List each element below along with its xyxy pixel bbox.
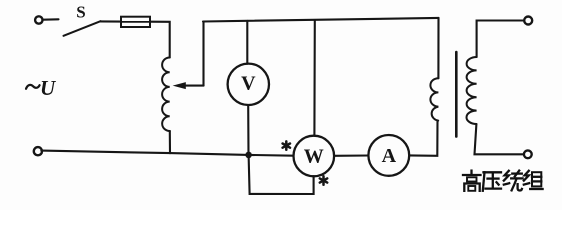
polarity mark * (wattmeter voltage side): [320, 176, 327, 184]
wire rail to wattmeter voltage terminal (top): [313, 20, 315, 136]
wire wattmeter voltage loop (junction to W bottom): [249, 155, 314, 194]
svg-text:V: V: [241, 72, 256, 94]
polarity mark * (wattmeter line side): [283, 141, 290, 149]
switch S (open blade): [64, 21, 101, 36]
wire autotransformer bottom to bottom rail: [169, 131, 171, 153]
wiper arrow of autotransformer: [173, 22, 204, 90]
wire secondary bottom to HV terminal: [475, 124, 524, 154]
svg-text:A: A: [382, 145, 397, 167]
svg-text:U: U: [40, 76, 57, 100]
terminal T4 (HV output bottom): [524, 150, 532, 158]
wire rail to voltmeter: [246, 21, 248, 64]
terminal T3 (HV output top): [524, 17, 532, 25]
wire fuse to autotransformer top: [150, 22, 170, 58]
组: [524, 171, 529, 181]
label ~U: [26, 85, 40, 89]
绕: [504, 171, 509, 181]
terminal T1 (top-left input): [35, 16, 42, 23]
svg-text:S: S: [76, 3, 85, 22]
wattmeter W: [294, 136, 335, 177]
wire ammeter to transformer primary: [409, 121, 437, 156]
transformer secondary winding: [466, 57, 476, 124]
wire top rail: [203, 18, 439, 22]
ammeter A: [368, 135, 409, 176]
voltmeter V: [228, 64, 269, 105]
terminal T2 (bottom-left input): [34, 147, 42, 155]
wire switch to fuse: [101, 20, 122, 22]
wire secondary top to HV terminal: [477, 21, 525, 58]
wire primary top to rail corner: [437, 18, 439, 78]
label 高压绕组 (HV winding) drawn strokes: [463, 171, 543, 191]
transformer core: [455, 52, 458, 137]
transformer primary winding: [430, 78, 438, 120]
高: [470, 171, 472, 174]
wire wattmeter to ammeter: [334, 154, 368, 156]
node junction (wattmeter/voltmeter tap): [245, 152, 252, 159]
fuse FU: [121, 17, 150, 27]
wire T1 to switch contact: [43, 18, 59, 21]
wire voltmeter to junction: [247, 105, 249, 155]
压: [484, 171, 502, 173]
svg-text:W: W: [304, 146, 324, 168]
wire bottom rail: [41, 151, 293, 156]
autotransformer AT winding: [162, 58, 170, 132]
